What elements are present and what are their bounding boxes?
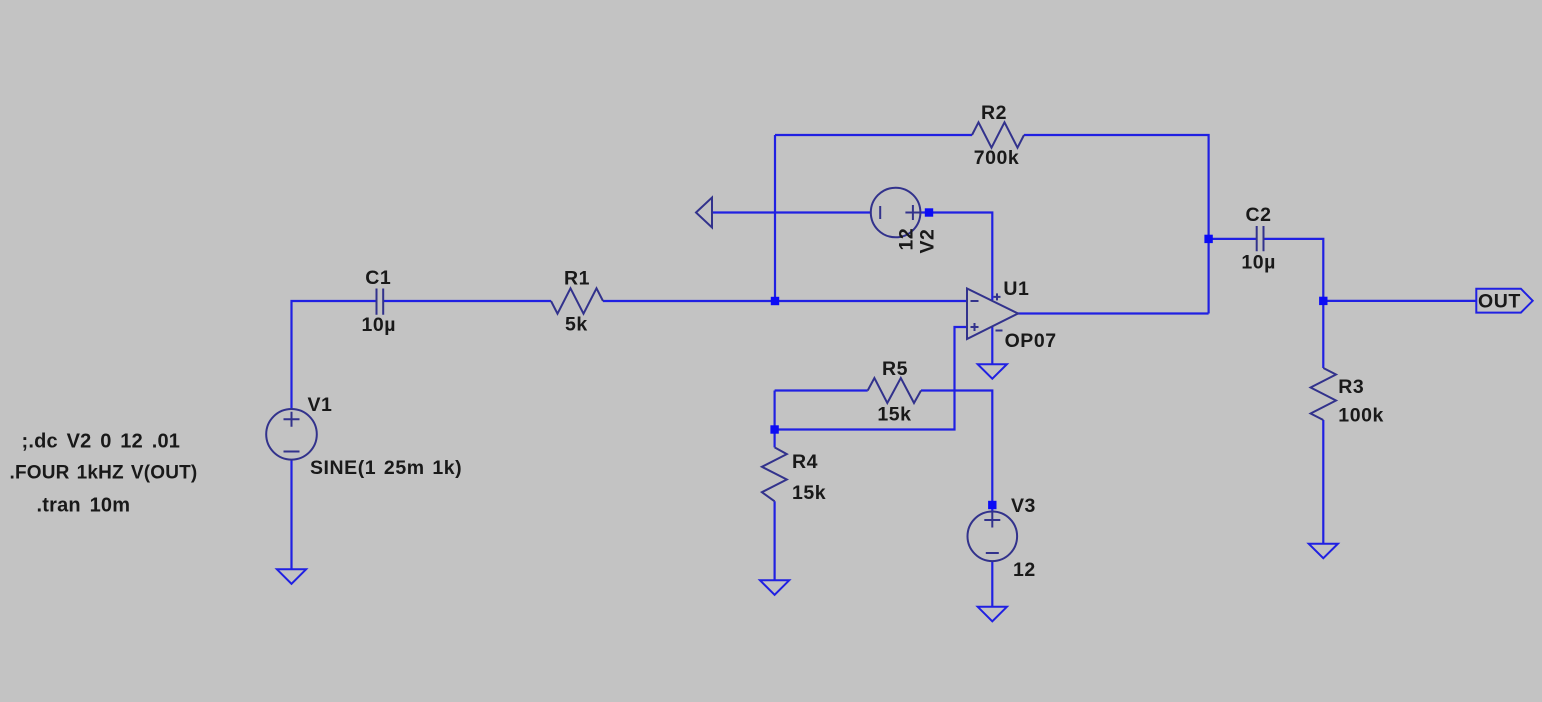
svg-text:10µ: 10µ bbox=[1241, 252, 1276, 274]
svg-text:12: 12 bbox=[896, 228, 918, 251]
ground R3 bbox=[1309, 544, 1338, 559]
svg-text:700k: 700k bbox=[974, 147, 1020, 169]
wire R3 bottom to ground bbox=[1322, 420, 1324, 544]
svg-text:R2: R2 bbox=[981, 102, 1007, 124]
wire C2 right down to out row bbox=[1264, 239, 1324, 301]
resistor R5 bbox=[868, 378, 921, 403]
svg-text:C1: C1 bbox=[365, 267, 391, 289]
port OUT bbox=[1476, 289, 1532, 313]
op-amp minus input mark bbox=[971, 300, 979, 302]
wire V1 top to main row bbox=[292, 301, 377, 409]
svg-text:;.dc V2 0 12 .01: ;.dc V2 0 12 .01 bbox=[22, 431, 181, 453]
node junction OUT row bbox=[1319, 297, 1327, 305]
svg-text:C2: C2 bbox=[1246, 204, 1272, 226]
svg-text:100k: 100k bbox=[1338, 405, 1384, 427]
wire R3 top bbox=[1322, 301, 1324, 368]
wire R1 to op-amp minus input bbox=[603, 300, 967, 302]
node junction C2 left bbox=[1204, 235, 1212, 243]
svg-text:R5: R5 bbox=[882, 358, 908, 380]
V1 plus bbox=[284, 412, 300, 427]
svg-text:12: 12 bbox=[1013, 559, 1036, 581]
svg-text:R1: R1 bbox=[564, 268, 590, 290]
wire R5 row right down to V3 bbox=[921, 391, 992, 512]
resistor R1 bbox=[551, 288, 603, 313]
svg-text:15k: 15k bbox=[792, 482, 826, 504]
resistor R2 bbox=[972, 122, 1024, 147]
wire R5 row left bbox=[775, 389, 868, 391]
op-amp V- pin mark bbox=[996, 330, 1003, 332]
svg-text:.FOUR 1kHZ V(OUT): .FOUR 1kHZ V(OUT) bbox=[10, 462, 198, 483]
svg-text:OP07: OP07 bbox=[1005, 330, 1057, 352]
V2 plus bbox=[905, 205, 920, 220]
svg-text:R4: R4 bbox=[792, 451, 818, 473]
wire R4 bottom to ground bbox=[773, 501, 775, 580]
svg-text:U1: U1 bbox=[1003, 278, 1029, 300]
wire R2 row right and right vertical bbox=[1024, 135, 1209, 314]
capacitor C1 plates bbox=[377, 289, 384, 315]
svg-text:V2: V2 bbox=[917, 229, 939, 254]
ground V1 bbox=[277, 569, 306, 584]
capacitor C2 plates bbox=[1257, 226, 1264, 251]
V3 minus bbox=[986, 552, 999, 554]
svg-text:SINE(1 25m 1k): SINE(1 25m 1k) bbox=[310, 457, 462, 479]
op-amp U1 triangle bbox=[967, 289, 1018, 340]
wire out row bbox=[1323, 300, 1476, 302]
op-amp V+ pin mark bbox=[994, 293, 1001, 300]
wire C2 row left bbox=[1209, 238, 1257, 240]
node junction V3 top bbox=[988, 501, 996, 509]
svg-text:.tran 10m: .tran 10m bbox=[37, 495, 131, 517]
wire C1 right to R1 bbox=[383, 300, 551, 302]
wire V1 bottom to ground bbox=[290, 460, 292, 570]
op-amp plus input mark bbox=[971, 323, 979, 331]
wire R4 top bbox=[773, 391, 775, 448]
ground R4 bbox=[760, 580, 789, 595]
ground V3 bbox=[978, 607, 1007, 622]
voltage source V2 circle bbox=[871, 188, 921, 238]
V2 minus bbox=[879, 206, 881, 219]
svg-text:V1: V1 bbox=[308, 394, 333, 416]
svg-text:R3: R3 bbox=[1338, 376, 1364, 398]
wire arrow to V2 left bbox=[712, 211, 871, 213]
arrow marker left bbox=[696, 198, 712, 228]
ground op-amp bbox=[978, 364, 1007, 379]
wire V3 bottom to ground bbox=[991, 561, 993, 607]
wire R2 left vertical bbox=[774, 135, 776, 301]
node junction V2 right pin bbox=[925, 208, 933, 216]
node junction R4/R5 row bbox=[770, 425, 778, 433]
resistor R3 bbox=[1311, 368, 1336, 420]
resistor R4 bbox=[762, 447, 787, 501]
wire V2 right to op-amp V+ bbox=[920, 213, 992, 301]
node junction main row x775 bbox=[771, 297, 779, 305]
voltage source V1 circle bbox=[266, 409, 317, 460]
wire op-amp V- to ground bbox=[991, 327, 993, 364]
svg-text:5k: 5k bbox=[565, 314, 588, 336]
wire R2 row left bbox=[775, 134, 972, 136]
V1 minus bbox=[284, 451, 300, 453]
svg-text:10µ: 10µ bbox=[362, 314, 397, 336]
V3 plus bbox=[984, 513, 1000, 528]
voltage source V3 circle bbox=[968, 512, 1018, 562]
svg-text:OUT: OUT bbox=[1478, 291, 1521, 313]
svg-text:15k: 15k bbox=[877, 404, 911, 426]
wire op-amp plus input loop bbox=[775, 327, 967, 430]
svg-text:V3: V3 bbox=[1011, 495, 1036, 517]
wire op-amp output row bbox=[1017, 312, 1209, 314]
